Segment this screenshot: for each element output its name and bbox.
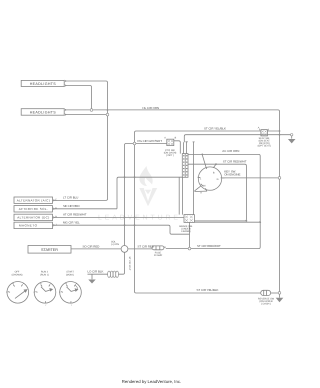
svg-text:(SHOWN): (SHOWN) — [12, 273, 23, 276]
svg-text:20 AMP: 20 AMP — [154, 254, 163, 257]
svg-text:AT CIR RED/WHT: AT CIR RED/WHT — [63, 213, 87, 217]
svg-text:LEADVENTURE: LEADVENTURE — [98, 215, 181, 222]
svg-text:(OPT SEAT): (OPT SEAT) — [258, 144, 271, 147]
svg-text:ALTERNATOR (A/C): ALTERNATOR (A/C) — [17, 198, 50, 202]
svg-text:LO CIR BLK: LO CIR BLK — [88, 269, 104, 273]
svg-text:AFTERFIRE SOL.: AFTERFIRE SOL. — [19, 207, 48, 211]
svg-text:( OPT ): ( OPT ) — [166, 154, 174, 157]
svg-text:RG CIR GRY/WHT: RG CIR GRY/WHT — [138, 139, 163, 143]
svg-text:STARTER: STARTER — [41, 248, 58, 252]
svg-text:M: M — [203, 184, 205, 187]
svg-text:ST CIR YEL/BLK: ST CIR YEL/BLK — [204, 127, 226, 131]
svg-text:ST CIR WHT: ST CIR WHT — [128, 257, 131, 271]
svg-text:HEADLIGHTS: HEADLIGHTS — [30, 82, 57, 86]
svg-text:7: 7 — [45, 304, 46, 307]
svg-text:ALTERNATOR (DC): ALTERNATOR (DC) — [17, 216, 49, 220]
svg-text:MAGNETO: MAGNETO — [19, 224, 38, 228]
svg-text:(+)=ON: (+)=ON — [111, 243, 119, 246]
svg-text:HEADLIGHTS: HEADLIGHTS — [30, 110, 57, 114]
svg-text:ST CIR YEL/BLK: ST CIR YEL/BLK — [197, 288, 219, 292]
svg-text:(MOM.): (MOM.) — [66, 273, 74, 276]
svg-text:7: 7 — [71, 304, 72, 307]
svg-text:L: L — [50, 282, 51, 285]
svg-text:HL CIR ORN: HL CIR ORN — [143, 106, 160, 110]
svg-text:LT CIR BLU: LT CIR BLU — [63, 196, 78, 200]
svg-text:ST CIR RED/WHT: ST CIR RED/WHT — [223, 160, 247, 164]
svg-text:L: L — [23, 282, 24, 285]
svg-text:L: L — [76, 282, 77, 285]
svg-text:ON ENGINE: ON ENGINE — [224, 173, 240, 177]
svg-text:G: G — [217, 178, 219, 181]
svg-text:SO CIR RED: SO CIR RED — [83, 244, 100, 248]
svg-text:ST CIR RED: ST CIR RED — [138, 244, 154, 248]
svg-text:Rendered by LeadVenture, Inc.: Rendered by LeadVenture, Inc. — [122, 379, 181, 384]
svg-text:( DASH ): ( DASH ) — [261, 303, 271, 306]
svg-text:AC CIR ORN: AC CIR ORN — [222, 149, 239, 153]
svg-text:D: D — [55, 207, 57, 210]
svg-text:FRAME): FRAME) — [181, 230, 190, 233]
svg-text:(RUN 1): (RUN 1) — [40, 273, 49, 276]
svg-text:MG CIR YEL: MG CIR YEL — [63, 221, 80, 225]
svg-text:ST CIR RED/WHT: ST CIR RED/WHT — [197, 244, 221, 248]
svg-text:SE CIR RED: SE CIR RED — [63, 204, 80, 208]
